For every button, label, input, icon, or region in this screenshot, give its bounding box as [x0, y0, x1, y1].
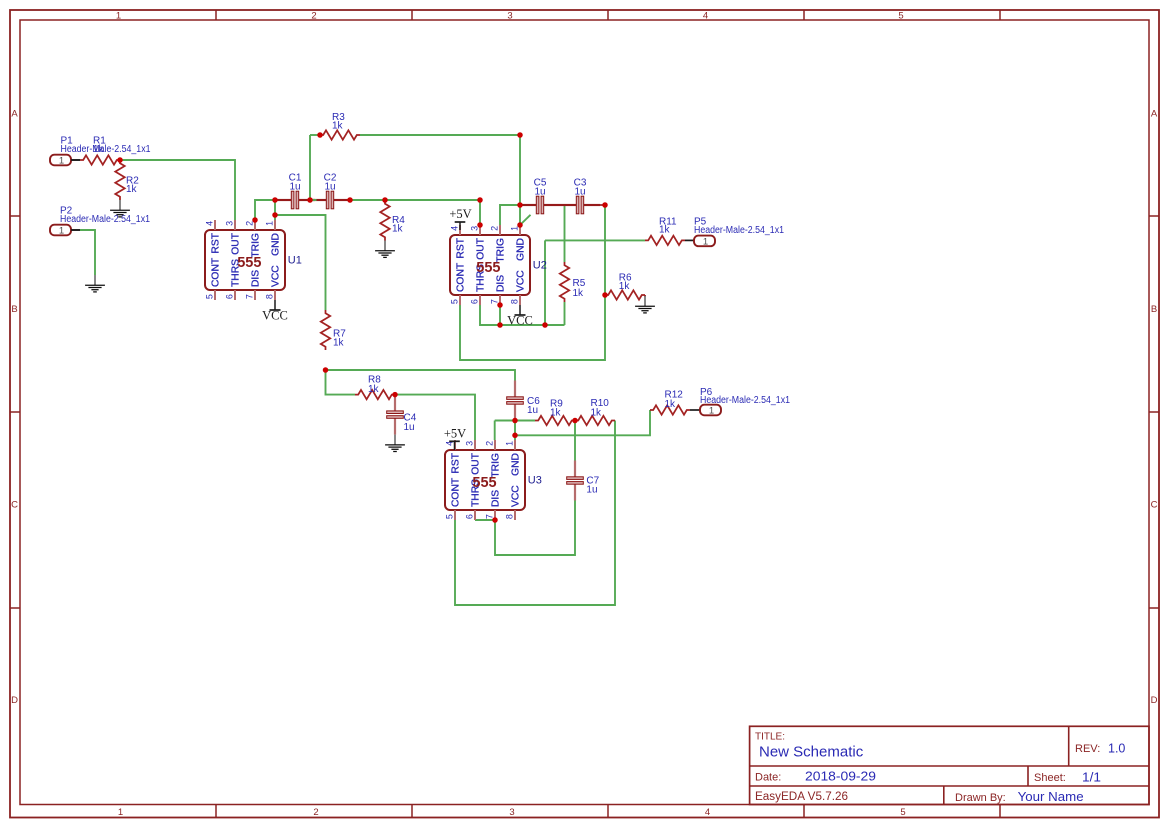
svg-text:3: 3: [224, 221, 234, 226]
wire C6 to U3 pin1: [514, 421, 516, 441]
junction R4 tap: [382, 197, 388, 203]
svg-text:CONT: CONT: [456, 262, 467, 292]
svg-text:6: 6: [224, 294, 234, 299]
svg-text:3: 3: [464, 441, 474, 446]
svg-text:1: 1: [59, 225, 64, 236]
timer IC U3 (555): [444, 440, 541, 520]
svg-text:DIS: DIS: [491, 490, 502, 507]
svg-text:C: C: [1151, 500, 1158, 511]
svg-text:4: 4: [449, 226, 459, 231]
svg-text:VCC: VCC: [507, 313, 533, 327]
svg-text:1u: 1u: [404, 422, 415, 433]
ground under P2: [85, 275, 105, 292]
svg-text:1k: 1k: [332, 121, 344, 132]
svg-text:1k: 1k: [392, 223, 404, 234]
resistor R6: [605, 273, 645, 300]
wire U1 pin1 to R7: [275, 215, 326, 310]
ground under C4: [385, 435, 405, 452]
label P6: [700, 387, 790, 406]
svg-text:OUT: OUT: [476, 237, 487, 259]
svg-text:3: 3: [509, 807, 514, 818]
svg-text:B: B: [1151, 304, 1157, 315]
svg-text:1.0: 1.0: [1108, 742, 1125, 756]
svg-text:1k: 1k: [665, 399, 677, 410]
svg-text:5: 5: [449, 299, 459, 304]
svg-text:A: A: [1151, 109, 1158, 120]
svg-text:6: 6: [464, 514, 474, 519]
junction U2 pin7: [497, 302, 503, 308]
junction R7 bottom node: [323, 367, 329, 373]
junction R11 riser bottom: [542, 322, 548, 328]
svg-text:1: 1: [59, 155, 64, 166]
wire C6 to R9: [515, 420, 535, 422]
pin names: [211, 232, 282, 287]
junction C1-C2 R3: [307, 197, 313, 203]
svg-text:1k: 1k: [126, 184, 138, 195]
svg-text:New Schematic: New Schematic: [759, 744, 864, 761]
svg-text:TITLE:: TITLE:: [755, 732, 785, 743]
junction R3 left: [317, 132, 323, 138]
svg-text:U3: U3: [528, 475, 542, 487]
wire R6 to ground corner: [644, 295, 646, 297]
wire P1 lead: [71, 159, 80, 161]
svg-text:U1: U1: [288, 255, 302, 267]
wire C5-C3 rail red segments: [520, 204, 605, 206]
wire P2 to ground: [80, 230, 95, 275]
power +5V at U3 pin4: [444, 426, 466, 450]
connector P2 (Header-Male-2.54_1x1): [50, 225, 80, 237]
frame column numbers: [116, 10, 906, 818]
wire U3 pin2 tap: [495, 420, 515, 422]
svg-text:5: 5: [204, 294, 214, 299]
ground under R6: [635, 296, 655, 313]
timer IC U2 (555): [449, 225, 546, 305]
junction C3 rail right: [602, 202, 608, 208]
svg-text:REV:: REV:: [1075, 743, 1100, 755]
junction C2 right: [347, 197, 353, 203]
wire U2 pin2 riser: [500, 205, 520, 225]
connector P6 (Header-Male-2.54_1x1): [700, 405, 721, 417]
svg-text:1u: 1u: [527, 405, 538, 416]
junction U3 pin1 tap: [512, 433, 518, 439]
wire to U2 pin3: [479, 200, 481, 225]
junction U1 pin2: [252, 217, 258, 223]
svg-text:+5V: +5V: [449, 207, 471, 221]
junction R3 right corner: [517, 132, 523, 138]
resistor R12: [650, 389, 690, 414]
wire R11 node riser: [544, 240, 546, 325]
svg-text:A: A: [11, 109, 18, 120]
svg-text:VCC: VCC: [516, 270, 527, 292]
title block text Date: [755, 769, 876, 784]
pin stubs: [455, 440, 515, 520]
resistor R11: [645, 217, 685, 246]
svg-text:1: 1: [264, 221, 274, 226]
svg-text:C: C: [11, 500, 18, 511]
junction R1-R2: [117, 157, 123, 163]
wire R10 right to U3 pin5: [455, 421, 615, 606]
label P2: [60, 206, 150, 226]
wire R12 to P6 lead: [690, 409, 700, 411]
resistor R9: [535, 399, 575, 426]
svg-text:VCC: VCC: [511, 485, 522, 507]
wire U2 pin6 to R5 bottom: [480, 305, 565, 325]
svg-text:1k: 1k: [573, 288, 585, 299]
svg-text:GND: GND: [271, 233, 282, 256]
svg-text:7: 7: [244, 294, 254, 299]
wire U2 pin1 diagonal stub: [520, 215, 531, 225]
svg-text:1u: 1u: [324, 182, 335, 193]
junction U1 pin1: [272, 212, 278, 218]
svg-text:CONT: CONT: [211, 257, 222, 287]
wire R7 node to C6: [326, 370, 516, 381]
pin stubs: [460, 225, 520, 305]
svg-text:5: 5: [898, 10, 903, 21]
label P1: [61, 136, 151, 155]
svg-text:2: 2: [311, 10, 316, 21]
svg-text:4: 4: [705, 807, 710, 818]
svg-text:Date:: Date:: [755, 772, 781, 784]
svg-text:1k: 1k: [619, 281, 631, 292]
svg-text:8: 8: [509, 299, 519, 304]
svg-text:U2: U2: [533, 260, 547, 272]
svg-text:2: 2: [313, 807, 318, 818]
capacitor C5: [520, 177, 560, 213]
wire C2 to node green segment: [312, 199, 317, 201]
junction U2 pin3: [477, 222, 483, 228]
wire R1 junction to U1 pin3: [120, 160, 235, 220]
junction R6 tap: [602, 292, 608, 298]
svg-text:EasyEDA V5.7.26: EasyEDA V5.7.26: [755, 791, 848, 803]
svg-text:VCC: VCC: [262, 308, 288, 322]
junction U2 pin1: [517, 222, 523, 228]
wire R3 to U2 pin1 riser: [360, 134, 520, 136]
wire U1 pin1 riser: [274, 200, 276, 220]
junction C5 rail left: [517, 202, 523, 208]
svg-text:1/1: 1/1: [1082, 770, 1101, 785]
svg-text:1u: 1u: [586, 485, 597, 496]
junction R9-R10-C7: [572, 418, 578, 424]
power VCC at U1 pin8: [262, 300, 288, 322]
svg-text:1k: 1k: [368, 384, 380, 395]
svg-text:Header-Male-2.54_1x1: Header-Male-2.54_1x1: [694, 225, 784, 236]
wire R8 to U3 pin3: [395, 395, 475, 440]
wire to R3: [310, 134, 320, 136]
svg-text:1u: 1u: [574, 187, 585, 198]
svg-text:1: 1: [116, 10, 121, 21]
capacitor C1: [275, 172, 315, 208]
junction C6-R9 node: [512, 418, 518, 424]
wire rail to R5: [564, 205, 566, 262]
resistor R7: [321, 310, 346, 350]
wire U3 pin1 to R12: [515, 410, 650, 435]
power VCC at U2 pin8: [507, 305, 533, 327]
pin numbers: [449, 226, 519, 304]
svg-text:DIS: DIS: [251, 270, 262, 287]
svg-text:555: 555: [237, 255, 261, 271]
svg-text:1u: 1u: [289, 182, 300, 193]
svg-text:6: 6: [469, 299, 479, 304]
svg-text:Header-Male-2.54_1x1: Header-Male-2.54_1x1: [60, 214, 150, 225]
svg-text:3: 3: [507, 10, 512, 21]
wire node rail C1-C2 red segments: [275, 199, 350, 201]
svg-text:1k: 1k: [550, 408, 562, 419]
title block: [750, 726, 1149, 804]
svg-text:1k: 1k: [591, 408, 603, 419]
resistor R8: [355, 374, 395, 399]
svg-text:555: 555: [476, 260, 500, 276]
junction rail corner U2 pin3: [477, 197, 483, 203]
wire C2 right to U2 pin3 corner: [350, 199, 480, 201]
svg-text:OUT: OUT: [231, 232, 242, 254]
svg-text:8: 8: [504, 514, 514, 519]
svg-text:1k: 1k: [659, 225, 671, 236]
svg-text:1: 1: [703, 236, 708, 247]
resistor R2: [115, 160, 139, 200]
wire R9-R10 node to C7: [574, 421, 576, 461]
capacitor C4: [387, 395, 417, 435]
wire U2 pin7 riser: [499, 305, 501, 325]
wire C7 bottom to U3 pin7: [495, 501, 575, 556]
ground under R4: [375, 241, 395, 258]
resistor R5: [560, 262, 586, 302]
junction node rail pin1 riser: [272, 197, 278, 203]
pin names: [456, 237, 527, 292]
wire U1 pin2 riser to node rail: [255, 200, 275, 220]
wire U3 pin6-pin7 jumper: [475, 519, 495, 521]
svg-text:OUT: OUT: [471, 452, 482, 474]
svg-text:B: B: [11, 304, 17, 315]
svg-text:GND: GND: [511, 453, 522, 476]
capacitor C6: [507, 381, 541, 421]
svg-text:555: 555: [472, 475, 496, 491]
wire P2 lead: [71, 229, 80, 231]
svg-text:4: 4: [204, 221, 214, 226]
svg-text:D: D: [1151, 695, 1158, 706]
svg-text:Header-Male-2.54_1x1: Header-Male-2.54_1x1: [700, 395, 790, 406]
title block text Drawn By: [955, 789, 1084, 804]
wire C2 node green stub: [310, 199, 317, 201]
wire U3 pin2 riser: [494, 421, 496, 441]
svg-text:1: 1: [504, 441, 514, 446]
svg-text:Sheet:: Sheet:: [1034, 772, 1066, 784]
svg-text:1u: 1u: [534, 187, 545, 198]
svg-text:1k: 1k: [333, 338, 345, 349]
wire R3 left riser: [309, 135, 311, 200]
capacitor C7: [567, 461, 600, 501]
svg-text:DIS: DIS: [496, 275, 507, 292]
capacitor C3: [560, 177, 600, 213]
svg-text:VCC: VCC: [271, 265, 282, 287]
pin stubs: [215, 220, 275, 300]
svg-text:R1: R1: [93, 136, 106, 147]
capacitor C2: [310, 172, 350, 208]
svg-text:RST: RST: [456, 237, 467, 258]
wire R7 node to R8: [326, 370, 356, 395]
svg-text:2: 2: [489, 226, 499, 231]
wire R11 to P5 lead: [685, 239, 694, 241]
resistor R10: [575, 398, 615, 425]
svg-text:CONT: CONT: [451, 477, 462, 507]
resistor R3: [320, 112, 360, 140]
wire node to R11: [545, 239, 645, 241]
wire C3 right down to U2 pin5: [460, 205, 605, 360]
ground under R2: [110, 200, 130, 217]
svg-text:D: D: [11, 695, 18, 706]
timer IC U1 (555): [204, 220, 301, 300]
svg-text:1: 1: [118, 807, 123, 818]
power +5V at U2 pin4: [449, 207, 471, 230]
connector P1 (Header-Male-2.54_1x1): [50, 155, 80, 167]
svg-text:Your Name: Your Name: [1018, 789, 1084, 804]
title block text Sheet: [1034, 770, 1101, 785]
svg-text:5: 5: [444, 514, 454, 519]
svg-text:2: 2: [484, 441, 494, 446]
svg-text:8: 8: [264, 294, 274, 299]
resistor R1: [80, 136, 120, 165]
junction U3 pin7: [492, 517, 498, 523]
pin numbers: [444, 441, 514, 519]
svg-text:RST: RST: [211, 232, 222, 253]
svg-text:+5V: +5V: [444, 426, 466, 440]
resistor R4: [380, 201, 405, 241]
pin names: [451, 452, 522, 507]
svg-text:5: 5: [900, 807, 905, 818]
svg-text:1: 1: [709, 405, 714, 416]
pin numbers: [204, 221, 274, 299]
connector P5 (Header-Male-2.54_1x1): [694, 236, 715, 248]
wire down to U2 pin1: [519, 135, 521, 225]
junction U2 pin7 riser: [497, 322, 503, 328]
label P5: [694, 217, 784, 237]
svg-text:2018-09-29: 2018-09-29: [805, 769, 876, 784]
title block text REV: [1075, 742, 1125, 756]
svg-text:Drawn By:: Drawn By:: [955, 792, 1006, 804]
svg-text:RST: RST: [451, 452, 462, 473]
wire R5 bottom: [564, 302, 566, 325]
svg-text:4: 4: [703, 10, 708, 21]
frame row letters: [11, 109, 1158, 707]
svg-text:GND: GND: [516, 238, 527, 261]
junction R8-C4: [392, 392, 398, 398]
